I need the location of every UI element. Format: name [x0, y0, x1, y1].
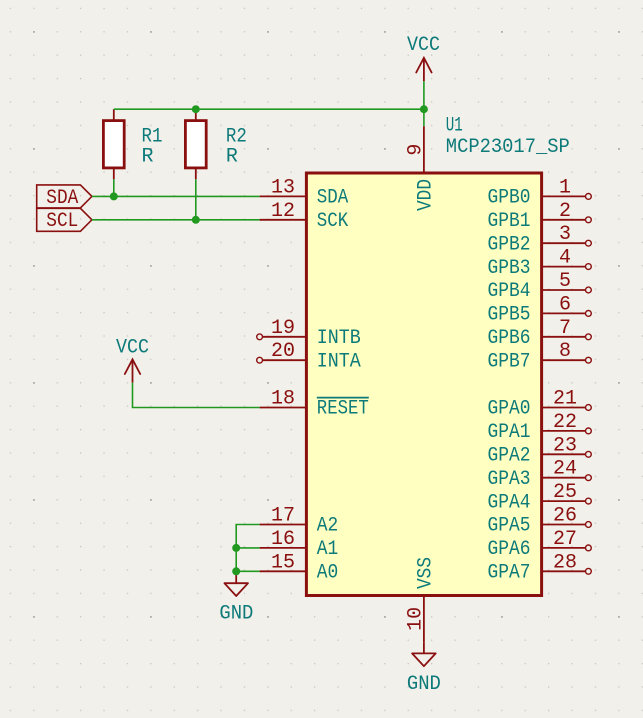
pin 21 GPA0 — [488, 388, 592, 421]
svg-text:GPB2: GPB2 — [488, 233, 531, 256]
svg-text:GPA4: GPA4 — [488, 491, 531, 514]
pin 8 GPB7 — [488, 340, 592, 373]
global label SDA — [37, 185, 92, 210]
wire A0 tie — [236, 570, 259, 572]
pin 25 GPA4 — [488, 481, 592, 514]
svg-text:GPB3: GPB3 — [488, 257, 531, 280]
svg-text:SDA: SDA — [46, 187, 78, 210]
svg-text:SCL: SCL — [46, 210, 78, 233]
power VCC (top) — [407, 34, 440, 81]
svg-text:27: 27 — [553, 528, 577, 551]
pin 1 GPB0 — [488, 176, 592, 209]
pin 22 GPA1 — [488, 411, 592, 444]
svg-text:A2: A2 — [317, 515, 339, 538]
junction A1 — [232, 544, 240, 552]
pin 26 GPA5 — [488, 505, 592, 538]
svg-text:16: 16 — [271, 528, 295, 551]
pin 28 GPA7 — [488, 551, 592, 584]
pin 12 SCK — [260, 200, 349, 233]
pin 10 VSS — [405, 557, 438, 642]
svg-text:R: R — [142, 145, 154, 168]
svg-text:8: 8 — [559, 340, 571, 363]
svg-text:GPA0: GPA0 — [488, 398, 531, 421]
svg-text:GND: GND — [219, 603, 253, 626]
svg-text:7: 7 — [559, 317, 571, 340]
svg-text:U1: U1 — [446, 115, 463, 138]
wire A2 tie — [236, 525, 259, 572]
svg-text:VDD: VDD — [415, 179, 438, 211]
pin 4 GPB3 — [488, 247, 592, 280]
svg-text:23: 23 — [553, 434, 577, 457]
wire pullup top bus — [114, 108, 424, 110]
wire A1 tie — [236, 547, 259, 549]
svg-text:VCC: VCC — [407, 34, 440, 57]
resistor R1 — [103, 109, 162, 179]
svg-text:RESET: RESET — [317, 398, 369, 421]
svg-text:GPB4: GPB4 — [488, 280, 531, 303]
svg-text:4: 4 — [559, 247, 571, 270]
svg-text:1: 1 — [559, 176, 571, 199]
svg-text:22: 22 — [553, 411, 577, 434]
pin 13 SDA — [260, 176, 349, 209]
svg-text:INTB: INTB — [317, 327, 361, 350]
wire VCC to VDD — [423, 81, 425, 126]
pin 20 INTA — [257, 340, 361, 373]
junction top bus / R2 — [192, 105, 200, 113]
wire SCL bus — [92, 219, 260, 221]
svg-text:2: 2 — [559, 200, 571, 223]
ground (left) — [219, 571, 253, 625]
pin 19 INTB — [257, 317, 361, 350]
svg-text:SDA: SDA — [317, 187, 349, 210]
svg-text:GPB5: GPB5 — [488, 304, 531, 327]
wire VCC to RESET — [133, 383, 260, 408]
svg-text:15: 15 — [271, 551, 295, 574]
pin 6 GPB5 — [488, 293, 592, 326]
pin 2 GPB1 — [488, 200, 592, 233]
svg-text:VCC: VCC — [116, 336, 149, 359]
svg-text:GPA5: GPA5 — [488, 515, 531, 538]
pin 7 GPB6 — [488, 317, 592, 350]
svg-text:GPB1: GPB1 — [488, 210, 531, 233]
pin 17 A2 — [260, 505, 339, 538]
resistor R2 — [185, 109, 247, 179]
pin 27 GPA6 — [488, 528, 592, 561]
pin 3 GPB2 — [488, 223, 592, 256]
pin 24 GPA3 — [488, 458, 592, 491]
svg-text:GPB6: GPB6 — [488, 327, 531, 350]
svg-text:GPA6: GPA6 — [488, 538, 531, 561]
svg-text:VSS: VSS — [415, 557, 438, 589]
svg-text:18: 18 — [271, 388, 295, 411]
wire SDA bus — [92, 195, 260, 197]
svg-text:13: 13 — [271, 176, 295, 199]
IC U1 MCP23017_SP body — [306, 173, 541, 596]
junction VCC node — [420, 105, 428, 113]
svg-text:24: 24 — [553, 458, 577, 481]
junction SCL / R2 — [192, 216, 200, 224]
pin 9 VDD — [405, 126, 438, 211]
svg-text:GPA1: GPA1 — [488, 421, 531, 444]
global label SCL — [37, 208, 92, 233]
svg-text:3: 3 — [559, 223, 571, 246]
junction SDA / R1 — [110, 192, 118, 200]
svg-text:28: 28 — [553, 551, 577, 574]
pin 23 GPA2 — [488, 434, 592, 467]
wire R1 bottom to SDA — [113, 179, 115, 196]
svg-text:A0: A0 — [317, 562, 339, 585]
svg-text:SCK: SCK — [317, 210, 349, 233]
junction A0 — [232, 567, 240, 575]
svg-text:GND: GND — [407, 673, 441, 696]
svg-text:INTA: INTA — [317, 350, 361, 373]
svg-text:5: 5 — [559, 270, 571, 293]
svg-text:GPB7: GPB7 — [488, 350, 531, 373]
svg-text:10: 10 — [405, 607, 428, 631]
ground (bottom) — [407, 642, 441, 696]
svg-text:A1: A1 — [317, 538, 339, 561]
svg-text:GPB0: GPB0 — [488, 187, 531, 210]
svg-text:6: 6 — [559, 293, 571, 316]
svg-text:MCP23017_SP: MCP23017_SP — [446, 136, 570, 159]
svg-text:26: 26 — [553, 505, 577, 528]
svg-text:9: 9 — [405, 144, 428, 156]
wire R2 bottom to SCL — [195, 179, 197, 220]
svg-text:GPA7: GPA7 — [488, 562, 531, 585]
svg-text:25: 25 — [553, 481, 577, 504]
pin 5 GPB4 — [488, 270, 592, 303]
pin 16 A1 — [260, 528, 339, 561]
svg-text:12: 12 — [271, 200, 295, 223]
svg-text:20: 20 — [271, 340, 295, 363]
power VCC (left) — [116, 336, 149, 382]
svg-text:19: 19 — [271, 317, 295, 340]
svg-text:GPA3: GPA3 — [488, 468, 531, 491]
svg-text:17: 17 — [271, 505, 295, 528]
pin 18 RESET — [260, 388, 369, 421]
pin 15 A0 — [260, 551, 339, 584]
svg-text:R: R — [226, 145, 238, 168]
svg-text:21: 21 — [553, 388, 577, 411]
svg-text:GPA2: GPA2 — [488, 445, 531, 468]
